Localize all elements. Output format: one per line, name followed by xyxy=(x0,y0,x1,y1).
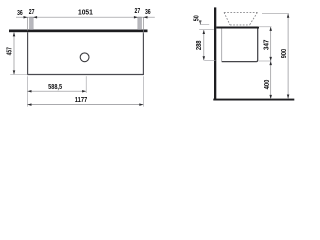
svg-text:588,5: 588,5 xyxy=(48,84,62,91)
arrow 900 top pointing up xyxy=(287,14,290,18)
extension line under countertop xyxy=(199,29,214,31)
dim line 457 (vertical) xyxy=(13,32,15,74)
svg-text:36: 36 xyxy=(145,9,151,16)
arrow 1051 right end pointing right xyxy=(134,16,138,19)
svg-text:457: 457 xyxy=(6,47,13,55)
arrow tip at left edge pointing right xyxy=(24,16,28,19)
arrow 457 bottom pointing down xyxy=(13,70,16,74)
top dimension line xyxy=(16,16,155,18)
countertop slab (side section, thick) xyxy=(216,27,259,29)
extension line from left corner down xyxy=(26,76,28,106)
arrow 457 top pointing up xyxy=(13,32,16,36)
extension line below circle xyxy=(85,76,87,93)
arrow 50 pointing down xyxy=(199,21,202,25)
floor line (thick horizontal) xyxy=(213,99,294,101)
dim line 588,5 xyxy=(27,90,86,92)
fixing bracket left (hatched) xyxy=(30,17,33,29)
extension line cabinet top right xyxy=(259,26,272,28)
dim line 288 (vertical) xyxy=(203,30,205,60)
arrow 900 bottom pointing down xyxy=(287,95,290,99)
arrow 347 bottom pointing down xyxy=(269,57,272,61)
arrow 400 top pointing up xyxy=(269,61,272,65)
svg-text:288: 288 xyxy=(196,40,203,50)
extension line bottom-left xyxy=(10,74,27,76)
extension line from right corner down xyxy=(142,76,144,106)
arrow 588,5 right pointing right xyxy=(82,90,86,93)
svg-text:400: 400 xyxy=(264,80,271,90)
svg-text:27: 27 xyxy=(29,9,35,16)
extension line cabinet bottom right xyxy=(259,60,272,62)
extension line basin rim to 900 xyxy=(262,13,289,15)
svg-text:50: 50 xyxy=(194,15,201,21)
arrow 1051 left end pointing left xyxy=(33,16,37,19)
washbasin dashed outline xyxy=(224,12,257,25)
arrow 588,5 left pointing left xyxy=(27,90,31,93)
wall line (side, thick vertical) xyxy=(214,7,216,100)
arrow 288 top pointing up xyxy=(203,30,206,34)
arrow 347 top pointing up xyxy=(269,27,272,31)
dim line 900 (vertical) xyxy=(287,14,289,99)
extension line basin bottom level xyxy=(200,24,209,26)
dim 50 leader line xyxy=(199,21,201,23)
extension: countertop left edge up to dim line xyxy=(27,17,29,30)
svg-text:900: 900 xyxy=(281,49,288,58)
extension: countertop right edge up to dim line xyxy=(142,17,144,33)
svg-text:27: 27 xyxy=(135,8,141,15)
arrow 400 bottom pointing down xyxy=(269,95,272,99)
svg-text:36: 36 xyxy=(17,10,23,17)
cabinet box (side) xyxy=(221,29,223,62)
arrow 1177 left pointing left xyxy=(27,103,31,106)
arrow 288 bottom pointing down xyxy=(203,56,206,60)
svg-text:347: 347 xyxy=(263,40,270,50)
wall line (plan, thick top line) xyxy=(9,30,148,33)
countertop outline (plan) xyxy=(28,32,144,74)
svg-text:1177: 1177 xyxy=(75,97,88,104)
arrow at right edge pointing left xyxy=(143,16,147,19)
extension line cabinet bottom (left of wall) xyxy=(204,59,215,61)
dim line 347+400 shared (vertical) xyxy=(270,27,272,99)
fixing bracket right (hatched) xyxy=(138,17,141,29)
faucet hole circle xyxy=(80,53,89,62)
dim line 1177 xyxy=(27,104,143,106)
arrow 1177 right pointing right xyxy=(139,103,143,106)
svg-text:1051: 1051 xyxy=(78,10,93,17)
